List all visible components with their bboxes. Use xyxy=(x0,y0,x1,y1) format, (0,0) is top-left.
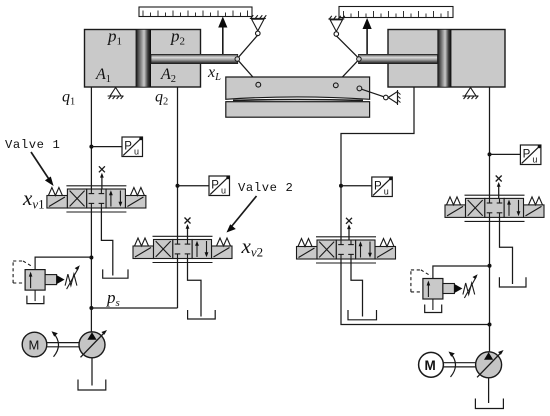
servo valve 3 xyxy=(297,237,396,263)
node: relief tee left xyxy=(89,256,93,260)
svg-text:xv2: xv2 xyxy=(241,234,264,260)
wire to pressure sensor 2 xyxy=(178,185,210,187)
tank under valve 1 xyxy=(103,269,128,278)
tank under valve 4 xyxy=(499,277,526,287)
pump 2 (variable displacement) xyxy=(476,350,504,378)
svg-text:M: M xyxy=(29,338,40,353)
pivot on beam left xyxy=(256,82,261,87)
pressure relief valve 1 xyxy=(13,257,91,304)
link: right pivot to rod end xyxy=(336,36,358,58)
link: right rod end to beam xyxy=(336,60,358,84)
svg-text:xL: xL xyxy=(207,64,221,83)
wire: valve 2 P port down xyxy=(177,259,179,309)
svg-text:M: M xyxy=(425,358,436,373)
node: q2 / sensor tee xyxy=(176,184,180,188)
wire: valve 2 T port to tank xyxy=(188,259,202,317)
link: left rod end to beam xyxy=(238,60,258,83)
pointer arrow to ruler 2 xyxy=(363,18,372,54)
svg-text:q1: q1 xyxy=(62,89,75,108)
node: ps corner right xyxy=(488,323,492,327)
mount under cylinder 1 xyxy=(108,88,124,100)
svg-text:Valve 2: Valve 2 xyxy=(238,181,293,195)
supply line ps (left) xyxy=(91,307,177,309)
pivot at beam end xyxy=(357,86,362,91)
hydraulic cylinder 1 body xyxy=(85,30,201,88)
crack line under beam xyxy=(233,99,363,102)
ruler scale 1 (left position sensor) xyxy=(139,7,252,17)
pressure sensor PU1 xyxy=(122,137,143,157)
wire: pump 2 to tank xyxy=(488,378,490,403)
node: ps corner left xyxy=(89,306,93,310)
shaft motor1-pump1 xyxy=(47,331,79,357)
servo valve 1 (xv1) xyxy=(47,186,146,212)
ruler scale 2 (right position sensor) xyxy=(339,7,453,18)
wire: valve 1 P port to supply xyxy=(90,208,92,308)
svg-text:ps: ps xyxy=(106,288,120,309)
shaft motor2-pump2 xyxy=(443,352,475,378)
pressure sensor PU2 xyxy=(209,176,230,196)
wire q2: cylinder 1 port B to valve 2 xyxy=(177,87,179,240)
motor M2 xyxy=(419,352,444,377)
node: q1 / sensor tee xyxy=(89,145,93,149)
blocked gauge port x above valve 2 xyxy=(185,218,191,240)
wire: valve 3 T port to tank xyxy=(351,259,363,316)
wire to pressure sensor 1 xyxy=(91,146,122,148)
servo valve 2 (xv2) xyxy=(133,236,232,262)
node: relief tee right xyxy=(488,264,492,268)
wire: valve 3 P port to supply ps right xyxy=(341,259,489,324)
piston rod of cylinder 1 xyxy=(151,54,240,63)
pressure sensor PU3 xyxy=(372,177,393,197)
tank under pump 1 xyxy=(78,380,106,391)
hydraulic cylinder 2 body xyxy=(388,30,505,88)
blocked gauge port x above valve 3 xyxy=(346,218,352,240)
wire q1: cylinder 1 port A to valve 1 xyxy=(90,87,92,189)
mount under cylinder 2 xyxy=(463,88,479,100)
wire: supply to pump 1 xyxy=(90,308,92,333)
wire: valve 4 T port to tank xyxy=(500,217,513,284)
pump 1 (variable displacement) xyxy=(79,330,107,358)
fixed pivot (hatched) above right rod end xyxy=(328,16,345,37)
wire: pump 1 to tank xyxy=(91,358,93,386)
svg-text:xv1: xv1 xyxy=(22,186,45,212)
blocked gauge port x above valve 4 xyxy=(496,176,502,199)
motor M1 xyxy=(22,332,47,357)
tank under valve 3 xyxy=(348,310,377,320)
pointer arrow to ruler 1 xyxy=(218,17,227,55)
wire: valve 1 T port to tank xyxy=(101,208,112,276)
svg-text:Valve 1: Valve 1 xyxy=(5,138,60,152)
pressure sensor PU4 xyxy=(520,145,541,165)
fixed pivot (hatched) above left rod end xyxy=(250,15,267,36)
tank under pump 2 xyxy=(475,399,503,409)
wire: valve 4 P port to supply xyxy=(489,217,491,324)
tank under valve 2 xyxy=(188,310,216,319)
wire to pressure sensor 3 xyxy=(341,185,372,187)
side support pivot (hatched, pointing left) xyxy=(384,90,401,105)
servo valve 4 xyxy=(445,195,544,221)
link: left pivot to rod end xyxy=(238,35,258,58)
wire: cylinder 2 cap-side port to valve 4 xyxy=(489,87,491,198)
svg-text:q2: q2 xyxy=(155,89,168,108)
specimen upper beam xyxy=(226,77,370,99)
specimen lower beam xyxy=(226,102,370,118)
link: beam end to side support xyxy=(362,89,385,97)
wire to pressure sensor 4 xyxy=(490,153,521,155)
blocked gauge port x above valve 1 xyxy=(99,166,105,189)
wire: supply to pump 2 xyxy=(489,325,491,353)
wire: cylinder 2 rod-side port to valve 3 xyxy=(341,87,414,240)
callout arrow to valve 1 xyxy=(31,152,54,186)
node: sensor tee 3 xyxy=(339,184,343,188)
pressure relief valve 2 xyxy=(411,266,489,313)
pivot on beam right xyxy=(333,83,338,88)
callout arrow to valve 2 xyxy=(227,196,257,233)
piston rod of cylinder 2 xyxy=(357,54,438,63)
node: sensor tee 4 xyxy=(488,152,492,156)
